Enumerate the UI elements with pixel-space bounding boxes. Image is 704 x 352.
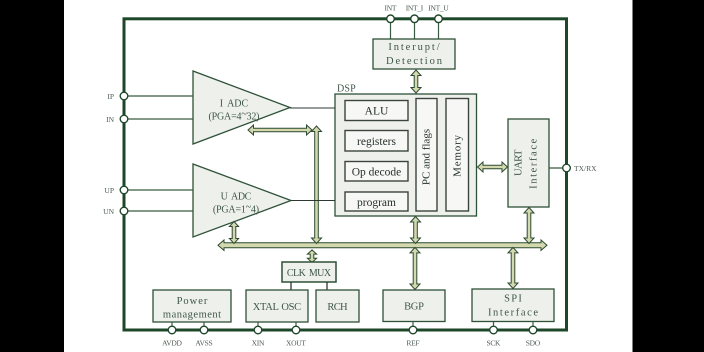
svg-text:CLK MUX: CLK MUX — [287, 268, 332, 279]
arrow DSP to UART — [478, 162, 508, 172]
svg-text:AVSS: AVSS — [195, 339, 212, 348]
chip outer border — [124, 19, 567, 330]
block Interupt/Detection — [373, 39, 455, 69]
wire UART to TX/RX — [549, 167, 567, 169]
svg-text:registers: registers — [357, 136, 396, 148]
wire IN to I ADC — [124, 118, 193, 120]
block Op decode — [345, 162, 408, 182]
svg-text:IP: IP — [107, 92, 114, 101]
wire XOUT — [295, 322, 297, 330]
svg-text:XIN: XIN — [252, 339, 265, 348]
block ALU — [345, 101, 408, 121]
svg-text:program: program — [357, 197, 396, 209]
svg-text:UP: UP — [104, 186, 114, 195]
amplifier I ADC — [193, 71, 290, 144]
block CLK MUX — [282, 262, 336, 282]
wire INT_U to Interupt/Detection — [438, 19, 440, 39]
svg-text:Power: Power — [177, 296, 209, 307]
bus riser from I ADC junction down to bus — [312, 126, 322, 244]
svg-text:TX/RX: TX/RX — [574, 164, 597, 173]
pin SDO — [529, 326, 537, 334]
svg-text:DSP: DSP — [337, 84, 356, 95]
svg-text:Interface: Interface — [528, 137, 539, 189]
svg-text:Detection: Detection — [386, 56, 444, 67]
arrow Interupt/Detection to DSP — [411, 70, 421, 93]
wire INT_I to Interupt/Detection — [414, 19, 416, 39]
pin INT_U — [435, 15, 443, 23]
svg-text:UN: UN — [103, 207, 114, 216]
pin TX/RX — [563, 164, 571, 172]
block SPI Interface — [472, 289, 554, 322]
svg-text:PC and flags: PC and flags — [421, 129, 433, 185]
pin SCK — [490, 326, 498, 334]
pin UN — [120, 207, 128, 215]
pin IN — [120, 115, 128, 123]
block Power management — [153, 290, 231, 322]
svg-text:SCK: SCK — [486, 339, 501, 348]
svg-text:XTAL OSC: XTAL OSC — [253, 302, 301, 313]
pin XOUT — [292, 326, 300, 334]
wire CLK MUX to RCH — [326, 282, 328, 290]
system bus — [218, 240, 547, 250]
svg-text:REF: REF — [406, 339, 419, 348]
arrow bus to CLK MUX — [307, 250, 316, 263]
svg-text:IN: IN — [106, 115, 114, 124]
amplifier U ADC — [193, 164, 291, 237]
wire INT to Interupt/Detection — [390, 19, 392, 39]
block XTAL OSC — [246, 290, 308, 322]
block program — [345, 192, 408, 211]
wire UP to U ADC — [124, 189, 193, 191]
pin AVDD — [168, 326, 176, 334]
svg-text:management: management — [163, 310, 222, 321]
pin AVSS — [200, 326, 208, 334]
arrow UART to bus — [524, 208, 534, 244]
svg-text:UART: UART — [513, 149, 524, 176]
wire SDO — [532, 322, 534, 331]
wire AVDD — [171, 322, 173, 331]
pin IP — [120, 92, 128, 100]
wire I ADC output to DSP — [290, 107, 335, 109]
svg-text:(PGA=1~4): (PGA=1~4) — [213, 202, 259, 216]
block registers — [345, 131, 408, 152]
svg-text:Interupt/: Interupt/ — [388, 42, 441, 53]
svg-text:U ADC: U ADC — [221, 192, 252, 203]
block RCH — [316, 290, 359, 322]
svg-text:Op decode: Op decode — [352, 167, 402, 179]
svg-text:INT_I: INT_I — [406, 4, 424, 13]
svg-text:Memory: Memory — [451, 134, 463, 177]
svg-text:ALU: ALU — [365, 106, 389, 118]
arrow bus to SPI — [508, 247, 518, 288]
pin UP — [120, 186, 128, 194]
wire CLK MUX to XTAL OSC — [290, 282, 292, 290]
arrow U ADC to bus — [229, 222, 238, 244]
arrow bus to BGP — [410, 247, 420, 289]
svg-text:RCH: RCH — [327, 302, 348, 313]
pin INT — [387, 15, 395, 23]
svg-text:(PGA=4~32): (PGA=4~32) — [209, 109, 260, 123]
wire UN to U ADC — [124, 210, 193, 212]
svg-text:INT: INT — [385, 4, 397, 13]
svg-text:BGP: BGP — [404, 302, 424, 313]
block Memory — [446, 99, 469, 212]
pin XIN — [254, 326, 262, 334]
svg-text:INT_U: INT_U — [428, 4, 449, 13]
svg-text:I ADC: I ADC — [220, 99, 249, 110]
wire REF — [412, 322, 414, 331]
block BGP — [383, 290, 445, 322]
svg-text:SPI: SPI — [504, 294, 523, 305]
pin INT_I — [411, 15, 419, 23]
pin REF — [409, 326, 417, 334]
wire AVSS — [203, 322, 205, 331]
svg-text:SDO: SDO — [526, 339, 541, 348]
wire XIN — [257, 322, 259, 330]
block UART Interface — [508, 119, 549, 207]
wire IP to I ADC — [124, 95, 193, 97]
wire SCK — [493, 322, 495, 331]
block PC and flags — [416, 99, 437, 212]
block DSP — [335, 94, 477, 216]
wire U ADC output to DSP program — [291, 200, 335, 202]
arrow DSP to bus — [411, 217, 421, 244]
arrow I ADC to bus riser — [248, 125, 312, 135]
svg-text:AVDD: AVDD — [162, 339, 182, 348]
svg-text:XOUT: XOUT — [286, 339, 306, 348]
svg-text:Interface: Interface — [488, 308, 540, 319]
